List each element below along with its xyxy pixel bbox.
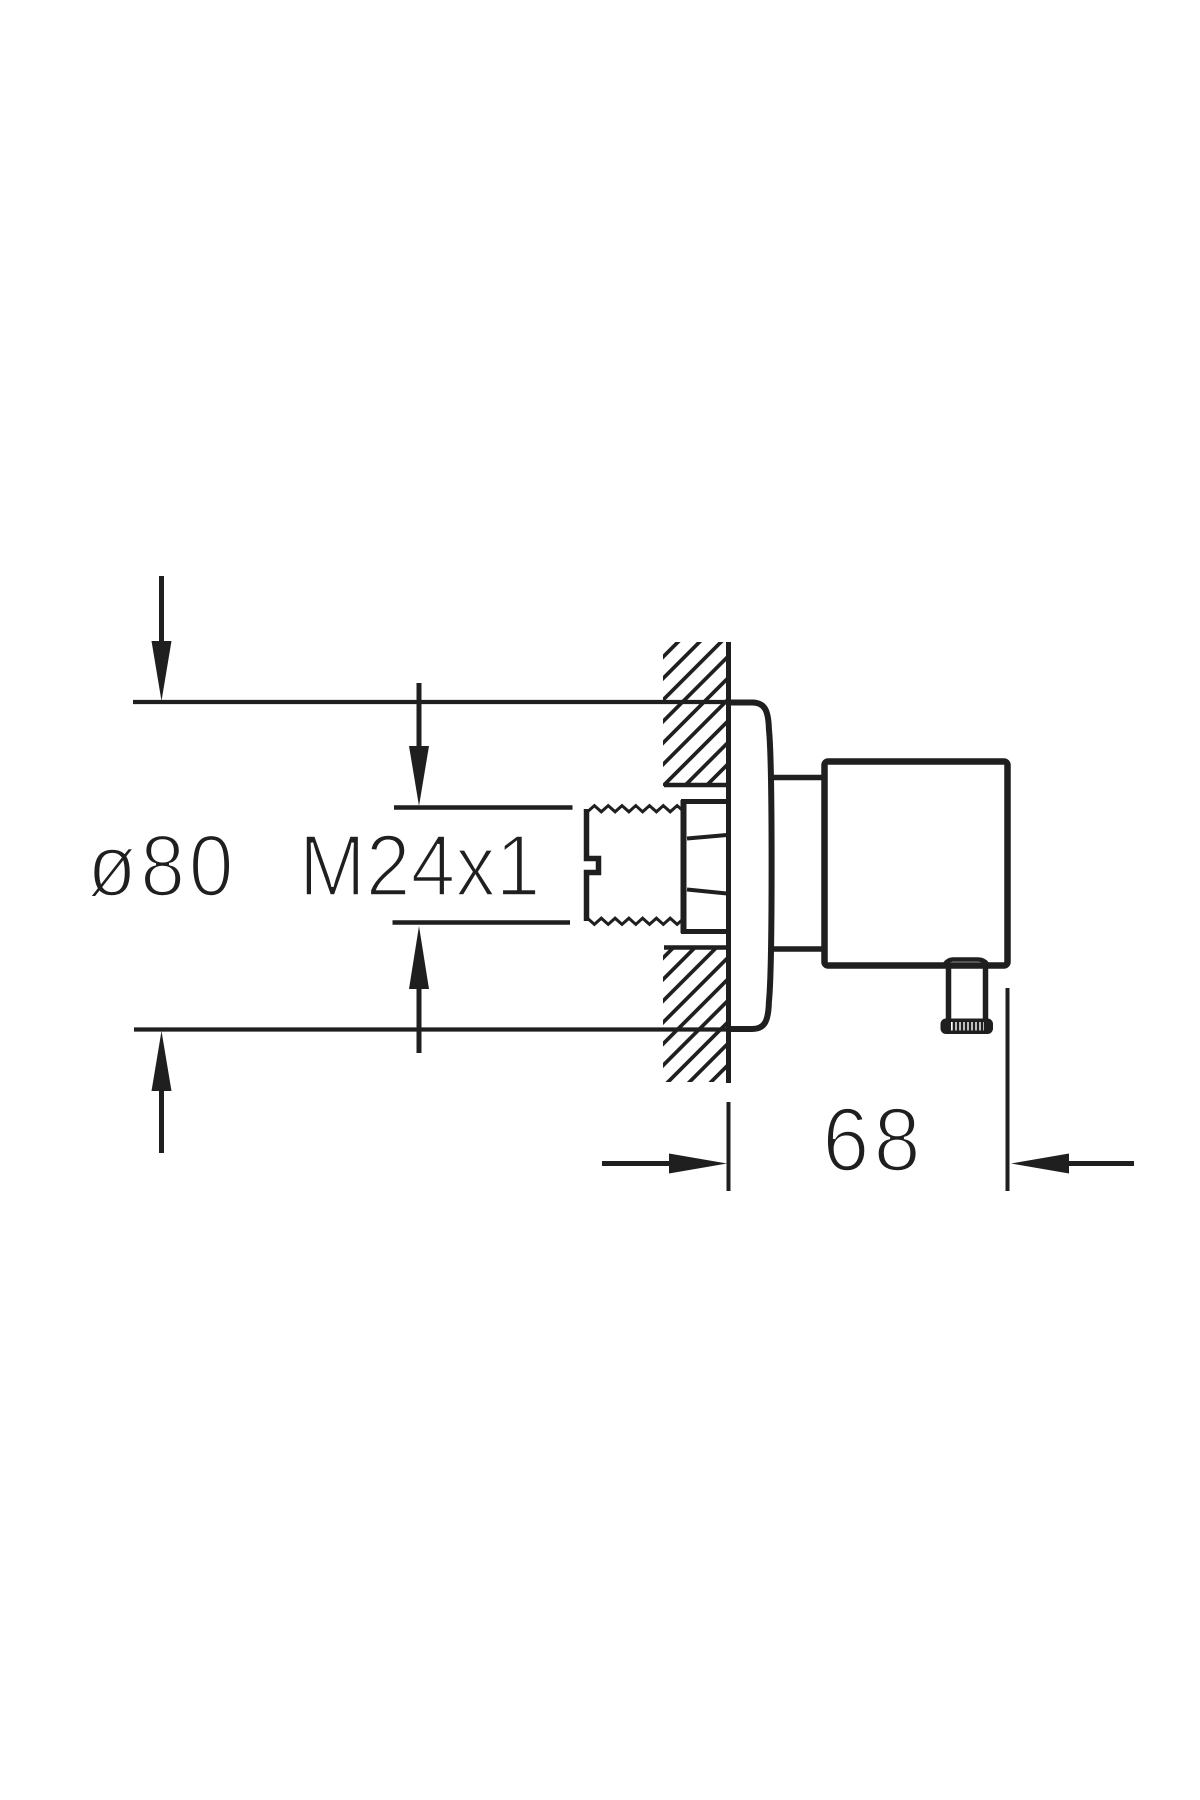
arrow down onto ø80 top line	[152, 576, 172, 701]
locknut facet line upper	[687, 835, 727, 839]
dimension line ø80 bottom	[134, 1027, 731, 1031]
outlet fillet bump	[945, 960, 987, 965]
valve body	[825, 762, 1008, 966]
dimension line M24 bottom	[393, 920, 571, 925]
thread top zigzag edge	[588, 806, 685, 812]
locknut facet line lower	[687, 890, 727, 894]
threaded pipe left outline with slot notch	[587, 809, 599, 921]
wall opening lower edge	[664, 945, 728, 950]
svg-text:ø80: ø80	[88, 816, 238, 914]
valve neck bottom line	[769, 946, 826, 952]
outlet cap knurl ticks	[954, 1021, 982, 1032]
68 extension line right	[1006, 988, 1010, 1191]
svg-text:68: 68	[823, 1090, 925, 1190]
wall opening upper edge	[664, 783, 731, 788]
locknut top edge	[681, 799, 728, 804]
arrow up onto M24 bottom line	[409, 926, 429, 1053]
svg-text:M24x1: M24x1	[299, 816, 541, 914]
thread bottom zigzag edge	[588, 918, 685, 924]
arrow down onto M24 top line	[409, 683, 429, 806]
wall face line	[726, 642, 731, 1083]
dimension line M24 top	[394, 805, 573, 810]
outlet cap body	[941, 1019, 994, 1035]
68 dimension left arrow	[602, 1154, 727, 1174]
valve neck top line	[769, 775, 826, 781]
escutcheon flange	[730, 703, 772, 1030]
locknut left face	[681, 800, 687, 933]
dimension line ø80 top	[133, 700, 731, 704]
wall hatch upper section	[230, 640, 1175, 1090]
arrow up onto ø80 bottom line	[152, 1031, 172, 1153]
outlet cap window	[951, 1022, 984, 1031]
outlet tube right wall	[983, 966, 989, 1021]
locknut bottom edge	[681, 929, 728, 934]
outlet tube left wall	[946, 964, 952, 1021]
68 dimension right arrow	[1011, 1154, 1134, 1174]
wall face extension line below	[727, 1102, 731, 1191]
wall hatch lower section	[230, 640, 1175, 1090]
